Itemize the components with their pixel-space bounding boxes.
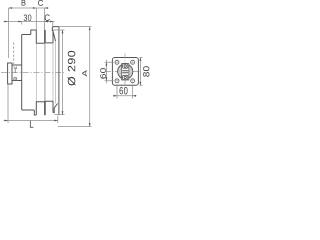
- arrowhead 30 left: [5, 21, 8, 23]
- node ext line tooth: [44, 8, 46, 30]
- rim lip left: [31, 30, 37, 35]
- bottom groove 2: [45, 101, 53, 115]
- dim 80 ext lines: [139, 58, 142, 86]
- key block middle: [122, 71, 128, 73]
- square flange outline: [112, 58, 138, 86]
- shaft: [12, 65, 22, 81]
- tiny shaft symbol lower: [14, 77, 17, 81]
- bottom tooth tip: [44, 114, 47, 116]
- plate right face: [58, 27, 60, 115]
- hidden dashed line keyway: [13, 43, 15, 65]
- flange left end: [8, 63, 12, 84]
- arrowhead B left: [9, 7, 13, 9]
- hub top edge: [22, 34, 31, 36]
- hatched hub circle: [118, 64, 133, 79]
- slot in hub: [122, 64, 129, 81]
- plate top edge: [52, 27, 58, 28]
- label 60 bottom: [119, 87, 127, 94]
- arrowhead C2 left: [45, 21, 48, 23]
- node ext line groove2 right wall: [52, 22, 54, 27]
- label C1: [38, 0, 43, 6]
- dim A line: [89, 27, 91, 127]
- groove chord lines mid: [36, 43, 53, 102]
- node ext line left flange face: [8, 8, 10, 58]
- bottom groove 1: [36, 102, 44, 115]
- bolt hole TL: [115, 60, 119, 64]
- dim 60 bottom ext lines: [117, 85, 133, 99]
- bolt hole BL: [115, 79, 119, 83]
- centerline vertical right view: [124, 54, 126, 91]
- arrowhead C1 right: [45, 7, 48, 9]
- arrowhead B right / C1 left: [33, 7, 36, 9]
- screw bottom: [123, 75, 128, 79]
- centerline horizontal right view: [106, 71, 142, 73]
- dim L line: [4, 120, 58, 122]
- tiny shaft symbol upper: [14, 67, 17, 73]
- label A rotated: [82, 70, 87, 76]
- wire dimension line B/C top: [9, 7, 49, 9]
- arrowhead C2 right: [50, 21, 53, 23]
- dim L ext right: [57, 116, 59, 124]
- dim 60 vertical line: [105, 60, 107, 84]
- bevel bottom: [54, 104, 57, 108]
- bolt hole BR: [131, 79, 135, 83]
- label B: [22, 0, 26, 6]
- bottom rim lip left: [34, 110, 36, 115]
- dim Ø290 ext bottom: [55, 114, 65, 116]
- centerline axis: [1, 71, 65, 73]
- label 80 rotated: [143, 66, 149, 77]
- groove 2: [45, 30, 53, 43]
- tooth cap: [44, 29, 47, 31]
- wire dimension line 30/C second: [4, 21, 55, 23]
- arrowhead 30 right: [18, 21, 21, 23]
- node ext line groove1 left wall: [35, 8, 37, 30]
- label 60 left rotated: [100, 68, 106, 78]
- plate left upper: [51, 28, 53, 31]
- label 30: [24, 14, 32, 21]
- dim Ø290 ext top: [53, 29, 65, 31]
- dim Ø290 line: [62, 30, 64, 115]
- bolt hole TR: [131, 60, 135, 64]
- label Ø290 rotated: [68, 51, 76, 86]
- dim L ext left: [7, 84, 9, 123]
- hub left face: [21, 35, 23, 111]
- plate mid face: [54, 41, 56, 104]
- hub bottom shelf: [22, 109, 35, 111]
- dim 80 line: [139, 58, 141, 86]
- groove 1: [36, 30, 44, 43]
- dim A ext bottom: [58, 126, 92, 128]
- dim 60 bottom line: [113, 95, 137, 97]
- dim A ext top: [59, 26, 92, 28]
- node ext line hub left face: [21, 22, 23, 25]
- label L: [30, 121, 33, 128]
- bevel top: [53, 32, 55, 42]
- dim 60 vertical left ext lines: [105, 62, 114, 81]
- screw top: [123, 64, 128, 68]
- bottom plate U: [53, 108, 54, 113]
- label C2: [45, 14, 50, 21]
